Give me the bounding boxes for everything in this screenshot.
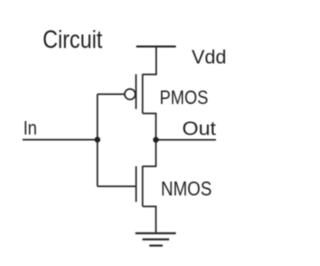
wire Vdd rail to PMOS source	[143, 47, 157, 75]
ground symbol	[135, 233, 176, 245]
svg-text:Vdd: Vdd	[192, 47, 227, 69]
wire output node to NMOS drain	[143, 140, 156, 167]
wire PMOS gate to input bus	[97, 93, 124, 95]
node Out junction dot	[153, 137, 159, 143]
Vdd power rail bar	[136, 46, 176, 48]
node In junction dot	[95, 137, 101, 143]
transistor PMOS gate plate	[135, 74, 137, 109]
svg-text:PMOS: PMOS	[160, 86, 209, 109]
PMOS gate inversion bubble	[125, 89, 136, 100]
svg-text:NMOS: NMOS	[161, 177, 212, 200]
svg-text:In: In	[23, 117, 37, 139]
wire In input horizontal	[23, 139, 98, 141]
wire input bus vertical	[96, 94, 98, 186]
svg-text:Out: Out	[182, 118, 216, 139]
wire NMOS source to ground	[143, 206, 156, 233]
wire PMOS drain to output node	[143, 113, 156, 139]
wire Out output horizontal	[156, 139, 216, 141]
wire NMOS gate to input bus	[97, 185, 136, 187]
transistor NMOS channel line	[142, 166, 144, 206]
svg-text:Circuit: Circuit	[43, 26, 103, 54]
transistor NMOS gate plate	[135, 166, 137, 202]
transistor PMOS channel line	[142, 74, 144, 113]
